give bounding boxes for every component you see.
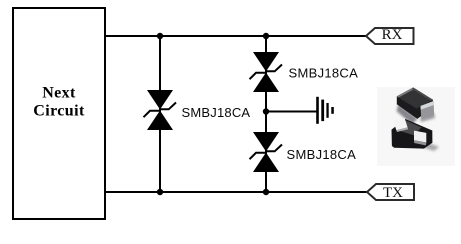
package 1 (upper right, isometric back view) xyxy=(397,88,436,125)
package 2 (lower left, isometric front view) xyxy=(392,118,440,151)
svg-text:RX: RX xyxy=(382,27,403,43)
junction: top wire / center branch xyxy=(263,33,269,39)
svg-text:SMBJ18CA: SMBJ18CA xyxy=(182,105,251,120)
svg-text:SMBJ18CA: SMBJ18CA xyxy=(289,66,359,81)
TVS diode D3 (lower center, SMBJ18CA) xyxy=(250,132,283,172)
svg-text:TX: TX xyxy=(383,185,403,201)
port RX xyxy=(366,28,414,44)
junction: bottom wire / center branch xyxy=(263,189,269,195)
box: Next Circuit xyxy=(13,8,105,219)
svg-text:SMBJ18CA: SMBJ18CA xyxy=(287,147,357,162)
TVS diode D1 (left, SMBJ18CA) xyxy=(144,90,177,130)
junction: bottom wire / left branch xyxy=(157,189,163,195)
ground xyxy=(316,97,334,124)
photo: SMB diode packages xyxy=(377,87,455,166)
junction: center branch / ground xyxy=(263,108,269,114)
svg-text:Circuit: Circuit xyxy=(33,103,85,120)
TVS diode D2 (upper center, SMBJ18CA) xyxy=(250,52,283,92)
wire: bottom net (TX) xyxy=(105,191,367,193)
wire: center TVS branch xyxy=(265,36,267,192)
junction: top wire / left branch xyxy=(157,33,163,39)
svg-text:Next: Next xyxy=(42,85,76,102)
wire: ground branch xyxy=(266,111,317,113)
wire: left TVS branch xyxy=(159,36,161,192)
wire: top net (RX) xyxy=(105,35,366,37)
port TX xyxy=(367,184,414,200)
